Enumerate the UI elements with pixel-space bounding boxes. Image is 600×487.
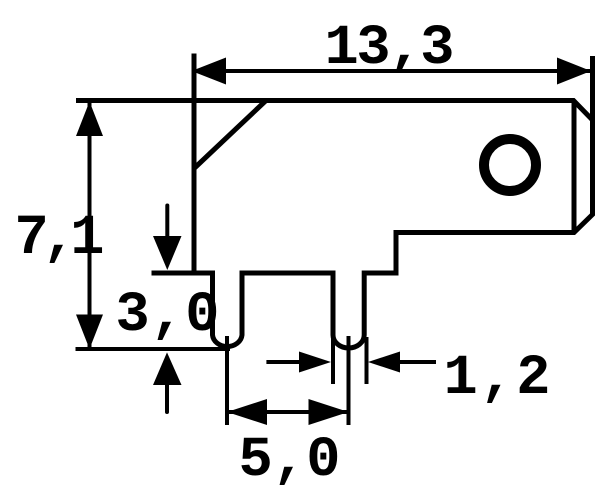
dim line 13,3 <box>192 69 592 73</box>
dim line 7,1 <box>88 102 92 349</box>
dim 3,0 upper arrow tail <box>165 206 169 243</box>
extension line at pin bottoms <box>76 347 231 351</box>
svg-text:13,3: 13,3 <box>325 17 455 81</box>
extension line pin2 center <box>347 336 351 425</box>
right edge with 13,3 extension <box>590 56 595 215</box>
part outline: top edge, right chamfers, bottom step, pins <box>76 101 593 349</box>
dim 1,2 right tail <box>399 360 436 364</box>
arrowhead 13,3 right <box>557 58 591 85</box>
svg-text:7,1: 7,1 <box>15 207 105 271</box>
dim 1,2 left tail <box>266 360 301 364</box>
dim 3,0 lower arrow tail <box>165 383 169 412</box>
svg-text:1,2: 1,2 <box>444 347 551 411</box>
extension line pin2 right <box>365 337 369 384</box>
arrowhead 3,0 down <box>153 236 182 270</box>
arrowhead 3,0 up <box>153 352 182 385</box>
arrowhead 1,2 left-pointing <box>368 352 400 373</box>
arrowhead 13,3 left <box>192 58 227 85</box>
arrowhead 7,1 down <box>76 315 103 350</box>
arrowhead 7,1 up <box>76 102 103 137</box>
svg-text:3,0: 3,0 <box>116 284 220 348</box>
dim line 5,0 <box>227 410 349 414</box>
hole circle <box>484 139 536 191</box>
inner right fold line <box>572 101 577 233</box>
extension line pin2 left <box>331 337 335 384</box>
svg-text:5,0: 5,0 <box>239 429 341 487</box>
top-left chamfer <box>194 101 266 169</box>
arrowhead 5,0 left <box>227 399 267 425</box>
left edge with 13,3 extension <box>192 54 197 274</box>
extension line pin1 center <box>225 336 229 425</box>
arrowhead 1,2 right-pointing <box>299 352 331 373</box>
arrowhead 5,0 right <box>309 399 349 425</box>
